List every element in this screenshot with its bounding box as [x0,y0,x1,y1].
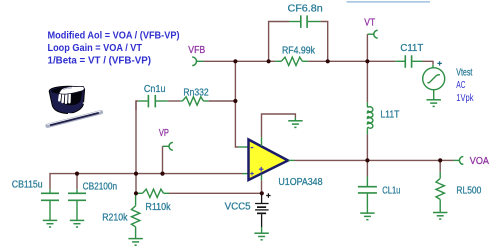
wire junction to inverting elbow [235,101,238,147]
svg-text:CB2100n: CB2100n [83,181,118,192]
wire row to VT column [328,60,368,62]
wire VFB row [204,60,276,62]
junction node CF-left [267,59,271,63]
wire opamp top supply stub [261,137,263,146]
svg-text:1/Beta = VT / (VFB-VP): 1/Beta = VT / (VFB-VP) [48,56,152,67]
plus marker battery [266,193,270,197]
wire CB row [50,174,243,190]
ground CB1 [43,220,57,227]
svg-text:Vtest: Vtest [456,67,472,78]
wire inverting input lead [238,146,248,148]
wire row to C1 [367,60,395,62]
wire opamp supply to ground elbow [262,114,296,137]
wire output row 3 [440,159,453,161]
svg-text:VP: VP [159,127,169,139]
capacitor CF 6.8n [289,15,321,28]
wire VFB junction down [234,61,236,101]
wire battery gnd stub [261,227,263,233]
svg-text:Modified Aol = VOA / (VFB-VP): Modified Aol = VOA / (VFB-VP) [48,31,180,42]
resistor R2 10k [131,194,139,239]
ground battery [254,233,268,240]
wire noninverting input lead [243,173,249,175]
svg-text:VCC5: VCC5 [225,202,251,213]
capacitor CL 1u [358,177,377,214]
wire Cn to Rn [168,100,181,102]
wire VT column down [366,34,368,61]
wire output row 2 [367,159,440,161]
svg-text:R210k: R210k [102,213,128,224]
svg-text:RL500: RL500 [456,186,481,197]
wire gnd stub [294,118,296,121]
op-amp U1 OPA348 [249,140,289,181]
magician hat logo [47,86,101,126]
wire L1 to output row [366,134,368,160]
wire Vtest bottom lead [433,90,435,100]
plus marker Vtest [437,61,441,65]
wire VT column to L1 [366,61,368,102]
svg-text:CB115u: CB115u [12,179,43,190]
svg-text:Cn1u: Cn1u [144,84,166,95]
wire C1 to Vtest elbow [423,61,434,65]
resistor Rn 332 [180,97,208,105]
wire VFB lead [196,60,203,62]
resistor RL 500 [436,172,444,213]
ground Vtest [427,100,441,107]
wire RL drop [439,160,441,171]
junction node CF-right [326,59,330,63]
resistor R1 10k [136,189,169,197]
ground CL [360,213,374,220]
wire VP lead [163,145,170,147]
node tag VOA [459,157,463,165]
junction node CB2 [75,172,79,176]
svg-text:VOA: VOA [470,155,489,167]
wire output row [295,159,368,161]
wire Rn to junction [209,100,236,102]
junction node CL [365,158,369,162]
source Vtest [423,68,445,90]
junction node battery [260,191,264,195]
wire center column [135,101,137,193]
wire CL drop [366,160,368,176]
wire opamp bottom supply stub [261,174,263,180]
wire VOA lead [454,159,460,161]
capacitor Cn 1u [138,95,168,108]
toolbar fragment line top right [347,1,431,3]
capacitor CB2 100n [68,189,86,220]
wire CB2 drop [76,174,78,190]
svg-text:1Vpk: 1Vpk [456,93,474,104]
svg-text:Rn332: Rn332 [183,87,208,98]
wire Cn elbow [136,101,138,110]
capacitor CB1 15u [41,189,59,220]
magic wand [48,112,102,126]
junction node VFB-col [233,59,237,63]
junction node R1R2 [134,191,138,195]
svg-text:CL1u: CL1u [382,185,400,196]
wire RF to CF right [308,60,327,62]
svg-text:R110k: R110k [145,202,171,213]
wire Vtest top lead [432,65,434,68]
junction node VP [160,172,164,176]
svg-text:VFB: VFB [188,44,205,56]
wire VT lead [367,33,373,35]
svg-text:Loop Gain = VOA / VT: Loop Gain = VOA / VT [48,43,143,54]
svg-text:C11T: C11T [400,43,423,54]
wire CF right vertical + top [321,22,328,62]
svg-text:L11T: L11T [380,109,399,120]
svg-text:AC: AC [456,80,465,91]
ground R2 [128,239,142,246]
wire supply to battery junction [261,180,263,193]
node tag VFB [192,57,196,66]
wire R1 to battery junction [169,192,262,194]
inductor L1 1T [367,102,373,134]
node tag VT [374,30,378,38]
wire VP column [162,146,164,173]
junction node RL [438,158,442,162]
svg-text:U1OPA348: U1OPA348 [278,177,322,188]
battery VCC 5 [255,193,269,227]
svg-text:CF6.8n: CF6.8n [288,3,323,14]
resistor RF 4.99k [275,57,308,65]
svg-text:RF4.99k: RF4.99k [282,45,316,56]
wire CF left vertical + top [269,22,289,62]
junction node Rn [233,99,237,103]
junction node VT-row [365,59,369,63]
ground opamp supply [288,121,302,128]
ground RL [433,213,447,220]
wire opamp output lead [289,159,295,161]
ground CB2 [70,220,84,227]
node tag VP [169,142,173,150]
capacitor C1 1T [395,55,422,67]
svg-text:VT: VT [364,17,375,29]
junction node center [134,172,138,176]
